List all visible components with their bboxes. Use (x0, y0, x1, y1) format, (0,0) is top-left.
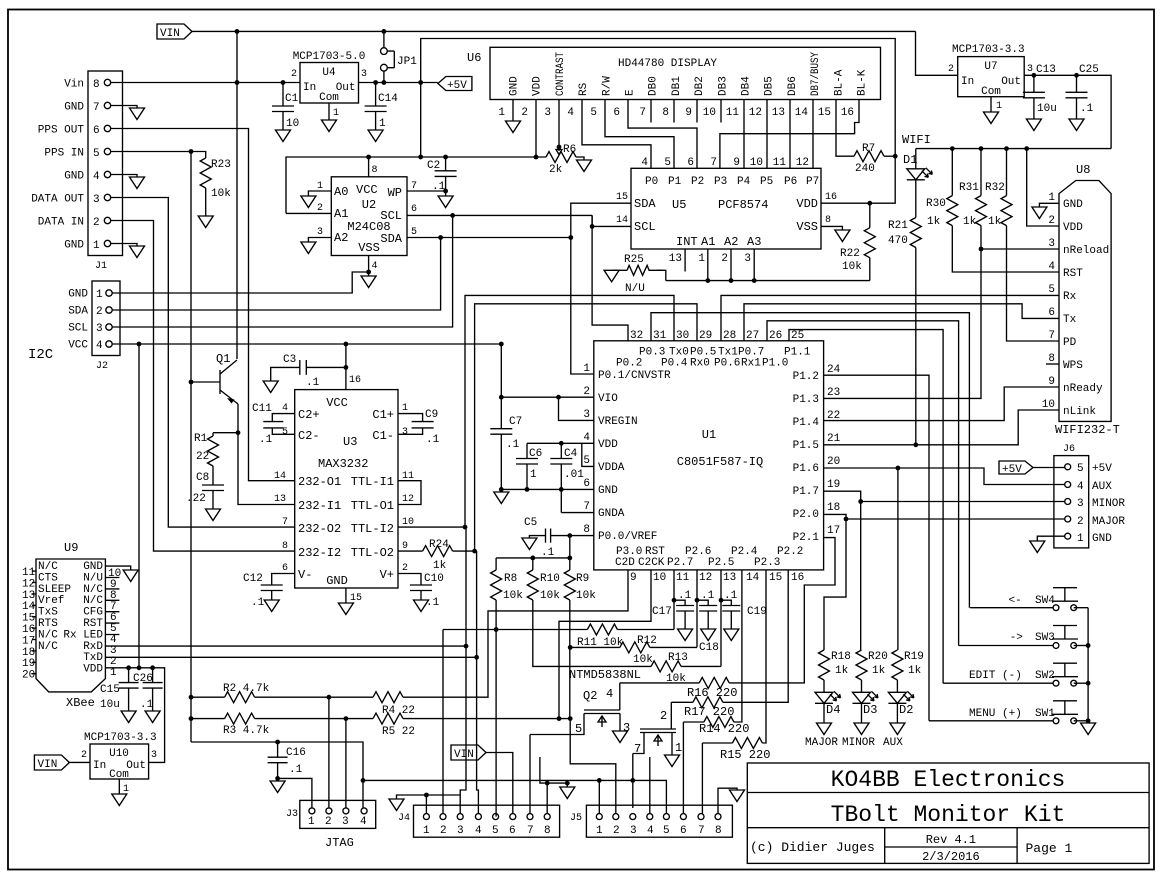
svg-text:VREGIN: VREGIN (598, 416, 638, 428)
svg-text:C6: C6 (529, 448, 542, 460)
switch SW4 (1052, 588, 1078, 611)
svg-text:4: 4 (475, 825, 482, 837)
svg-text:GND: GND (64, 102, 84, 114)
svg-text:2: 2 (948, 64, 954, 75)
resistor R11 10k (443, 629, 587, 631)
svg-text:J1: J1 (95, 261, 107, 272)
svg-text:R6: R6 (563, 144, 576, 156)
pin J1.1 gnd (104, 240, 110, 246)
wire +5V down to rail (420, 83, 422, 158)
U9 left pin numbers (22, 567, 36, 682)
svg-text:C15: C15 (100, 684, 120, 696)
svg-text:DATA IN: DATA IN (38, 217, 84, 229)
pin J2.4 VCC wire (106, 341, 112, 347)
svg-text:WIFI232-T: WIFI232-T (1055, 423, 1120, 437)
svg-text:Rx LED: Rx LED (63, 629, 103, 641)
svg-text:VDD: VDD (796, 197, 818, 211)
U2 EEPROM (286, 157, 592, 288)
svg-text:P0.0/VREF: P0.0/VREF (598, 531, 657, 543)
wire J4.3 riser from TTL (460, 646, 466, 814)
svg-text:DB3: DB3 (717, 76, 729, 96)
resistor R18 1k (819, 650, 830, 680)
svg-text:6: 6 (687, 157, 694, 169)
svg-text:J3: J3 (286, 809, 298, 820)
svg-text:R9: R9 (576, 573, 589, 585)
wire U6.10 DB3 stub (720, 100, 722, 123)
svg-text:7: 7 (93, 102, 100, 114)
svg-text:.1: .1 (259, 434, 273, 446)
wire U6.9 DB2 stub (696, 100, 698, 123)
svg-text:VCC: VCC (356, 183, 378, 197)
svg-text:1: 1 (96, 289, 103, 301)
svg-text:MCP1703-5.0: MCP1703-5.0 (293, 51, 366, 63)
svg-text:1k: 1k (988, 216, 1002, 228)
svg-text:19: 19 (22, 658, 35, 670)
wire U1.32 to SCL (592, 215, 628, 340)
capacitor C12 .1 (261, 584, 283, 586)
svg-text:28: 28 (723, 330, 736, 342)
regulator U4 MCP1703-5.0 (300, 63, 359, 104)
svg-text:1k: 1k (927, 216, 941, 228)
svg-text:5: 5 (663, 825, 670, 837)
svg-text:TBolt Monitor Kit: TBolt Monitor Kit (831, 802, 1066, 828)
svg-text:8: 8 (825, 215, 831, 226)
svg-text:RST: RST (83, 618, 103, 630)
svg-text:U8: U8 (1076, 163, 1090, 177)
potentiometer R6 2k (546, 152, 576, 163)
svg-text:MINOR: MINOR (1092, 498, 1125, 510)
svg-text:6: 6 (613, 107, 620, 119)
svg-text:C2+: C2+ (298, 408, 320, 422)
TOP RIGHT: U7 regulator (916, 31, 1112, 148)
svg-text:7: 7 (527, 825, 534, 837)
wire U6.8 DB1 stub (673, 100, 675, 123)
svg-text:1: 1 (402, 403, 408, 414)
svg-text:DB2: DB2 (694, 76, 706, 96)
svg-text:.01: .01 (564, 469, 584, 481)
svg-text:XBee: XBee (66, 696, 95, 710)
svg-text:3: 3 (744, 253, 751, 265)
svg-text:GND: GND (1063, 199, 1083, 211)
resistor R15 220 (702, 742, 732, 744)
wire P1.6 to J6 AUX (1065, 482, 1071, 488)
resistor R30 1k to U8 RST (951, 149, 953, 196)
svg-text:2: 2 (583, 386, 590, 398)
svg-text:10k: 10k (576, 590, 596, 602)
TITLEBLOCK (747, 763, 1149, 864)
wire U9 TxD to R24 net (105, 551, 476, 657)
svg-text:+5V: +5V (1092, 463, 1112, 475)
svg-text:I2C: I2C (28, 347, 53, 363)
svg-text:6: 6 (1048, 307, 1055, 319)
svg-text:EDIT (-): EDIT (-) (969, 670, 1022, 682)
svg-text:JTAG: JTAG (325, 836, 354, 850)
svg-text:12: 12 (402, 494, 414, 505)
svg-text:10: 10 (703, 107, 716, 119)
svg-text:21: 21 (827, 433, 841, 445)
power flag +5V at J6 (999, 461, 1033, 474)
wire U1.2 VIO from VCC (501, 344, 594, 397)
svg-text:P2.3: P2.3 (754, 557, 780, 569)
wire C16 gnd to J3.1 (278, 778, 312, 808)
regulator U7 MCP1703-3.3 (958, 57, 1024, 97)
svg-text:A0: A0 (334, 185, 348, 199)
svg-text:RST: RST (1063, 268, 1083, 280)
svg-text:P1.4: P1.4 (793, 417, 820, 429)
svg-text:MCP1703-3.3: MCP1703-3.3 (952, 44, 1025, 56)
connector J3 (300, 800, 376, 828)
svg-text:6: 6 (411, 204, 417, 215)
svg-text:D1: D1 (903, 153, 917, 167)
svg-text:Rx0: Rx0 (690, 358, 710, 370)
resistor R9 10k (569, 558, 571, 570)
wire U1 P2.7 pin11 to R11/C17 (673, 570, 676, 630)
svg-text:470: 470 (888, 235, 908, 247)
svg-text:10k: 10k (842, 261, 862, 273)
svg-text:12: 12 (22, 578, 35, 590)
svg-text:VIO: VIO (598, 393, 618, 405)
capacitor C17 .1 (674, 600, 685, 605)
SWITCHES (929, 588, 1096, 735)
svg-text:C9: C9 (425, 409, 438, 421)
wire R2 row to R4 (255, 696, 373, 698)
svg-text:.1: .1 (306, 377, 320, 389)
svg-text:8: 8 (1048, 353, 1055, 365)
svg-text:WPS: WPS (1063, 360, 1083, 372)
svg-text:GND: GND (598, 485, 618, 497)
svg-text:P1: P1 (668, 176, 682, 188)
svg-text:13: 13 (772, 107, 785, 119)
wire U6.7 DB0 stub (650, 100, 652, 123)
svg-text:SW3: SW3 (1035, 632, 1055, 644)
svg-text:20: 20 (22, 670, 35, 682)
svg-text:A2: A2 (334, 231, 348, 245)
svg-text:6: 6 (282, 563, 288, 574)
wire U5 SCL left (592, 215, 631, 226)
svg-text:3: 3 (342, 816, 349, 828)
svg-text:J6: J6 (1063, 444, 1075, 455)
svg-text:4: 4 (1077, 481, 1084, 493)
LED D3 MINOR (861, 680, 863, 692)
svg-text:DB6: DB6 (787, 76, 799, 96)
IC U1 C8051F587-IQ (594, 341, 824, 570)
wire J4.2 riser (442, 630, 444, 814)
pin J1.2 wire DATA IN to U3 (104, 217, 110, 223)
wire J4.8 riser (546, 783, 548, 814)
svg-text:10u: 10u (1037, 103, 1057, 115)
switch SW1 (1052, 701, 1078, 724)
svg-text:11: 11 (676, 572, 690, 584)
U8 WIFI MODULE (824, 163, 1120, 445)
svg-text:5: 5 (575, 722, 582, 736)
pin numbers left (583, 363, 590, 536)
svg-text:232-O1: 232-O1 (298, 475, 341, 489)
wire U4 Out +5V (359, 82, 438, 84)
svg-text:DB4: DB4 (741, 76, 753, 96)
connector J1 (88, 71, 123, 256)
wire gnd link to J4.3 riser (426, 794, 460, 796)
wire R15 to J5.7 (701, 743, 703, 814)
svg-text:6: 6 (583, 478, 590, 490)
wire U5 A1 A2 A3 to rail (707, 249, 709, 281)
svg-text:12: 12 (749, 107, 762, 119)
pin U3.1 C1+ (398, 414, 423, 422)
svg-text:Page 1: Page 1 (1026, 841, 1073, 856)
svg-text:R31: R31 (959, 182, 979, 194)
svg-text:GND: GND (68, 289, 88, 301)
svg-text:V+: V+ (380, 568, 394, 582)
svg-text:VDD: VDD (83, 664, 103, 676)
svg-text:GND: GND (64, 171, 84, 183)
wire U1.29 Tx0 from R24 (475, 304, 697, 551)
wire U6.16 BL-K to U5 P3 (720, 100, 859, 169)
connector J2 (92, 281, 120, 356)
capacitor C7 .1 (500, 397, 502, 429)
svg-text:14: 14 (746, 572, 760, 584)
resistor R7 240 (854, 151, 884, 162)
power flag VIN (top) (157, 24, 192, 39)
capacitor C1 10 (281, 80, 286, 85)
svg-text:10: 10 (750, 157, 763, 169)
capacitor C11 .1 (263, 421, 283, 423)
wire U9 VDD from U10 (105, 668, 164, 763)
svg-text:P0: P0 (645, 176, 658, 188)
svg-text:10: 10 (286, 118, 299, 130)
wire U1.31 to SW4 (651, 313, 969, 608)
svg-text:4: 4 (583, 432, 590, 444)
svg-text:VIN: VIN (160, 28, 180, 40)
pin J2.3 SCL wire (106, 324, 112, 330)
svg-text:3: 3 (317, 227, 323, 238)
svg-text:CTS: CTS (38, 572, 58, 584)
svg-text:15: 15 (616, 192, 628, 203)
svg-text:5: 5 (282, 427, 288, 438)
wire U8 nReady to P1.4 (824, 387, 1059, 421)
power flag VIN (J4) (451, 745, 486, 760)
svg-text:7: 7 (698, 825, 705, 837)
svg-text:SCL: SCL (380, 209, 402, 223)
svg-text:15: 15 (22, 613, 35, 625)
svg-text:3: 3 (1048, 238, 1055, 250)
svg-text:C12: C12 (243, 573, 263, 585)
svg-text:N/U: N/U (625, 283, 645, 295)
svg-text:SDA: SDA (68, 306, 88, 318)
capacitor C3 .1 (271, 367, 346, 381)
node VCC/3.3V branch (137, 342, 142, 347)
connector J6 (1054, 456, 1089, 548)
svg-text:->: -> (1010, 632, 1023, 644)
wire U3 TTL-I2 right (398, 526, 465, 528)
wire U1.3 VREGIN (559, 397, 594, 420)
svg-text:Rev 4.1: Rev 4.1 (926, 833, 976, 847)
wire P2.0 to R18 (824, 519, 846, 650)
svg-text:R32: R32 (985, 182, 1005, 194)
TOP: U4 regulator area (237, 29, 895, 213)
svg-text:C13: C13 (1036, 64, 1056, 76)
svg-text:nReload: nReload (1063, 245, 1109, 257)
svg-text:Com: Com (319, 92, 339, 104)
svg-text:V-: V- (298, 568, 312, 582)
svg-text:RTS: RTS (38, 618, 58, 630)
svg-text:8: 8 (662, 107, 669, 119)
svg-text:P3: P3 (714, 176, 727, 188)
svg-text:C19: C19 (747, 606, 767, 618)
svg-text:2: 2 (440, 825, 447, 837)
svg-text:DB1: DB1 (671, 76, 683, 96)
svg-text:1k: 1k (963, 216, 977, 228)
wire U2 SCL net (407, 214, 592, 216)
svg-text:27: 27 (746, 330, 759, 342)
wire VIN flag to rail (192, 30, 916, 32)
svg-text:3: 3 (361, 69, 367, 80)
svg-text:VCC: VCC (326, 396, 348, 410)
svg-text:2: 2 (1077, 516, 1084, 528)
resistor R32 1k to U8 PD (1006, 149, 1008, 196)
svg-text:10: 10 (653, 572, 666, 584)
svg-text:HD44780 DISPLAY: HD44780 DISPLAY (618, 58, 717, 70)
capacitor C4 .01 (560, 443, 562, 458)
svg-text:U3: U3 (343, 435, 357, 449)
svg-text:P0.6: P0.6 (714, 358, 740, 370)
svg-text:VSS: VSS (796, 220, 818, 234)
svg-text:20: 20 (827, 456, 840, 468)
svg-text:VCC: VCC (68, 340, 88, 352)
svg-text:5: 5 (590, 107, 597, 119)
pin U2 A2 gnd (308, 238, 331, 243)
svg-text:In: In (93, 760, 106, 772)
svg-text:3: 3 (630, 825, 637, 837)
svg-text:SCL: SCL (68, 323, 88, 335)
wire J3.2 riser (328, 697, 330, 808)
pin J2.2 SDA wire (106, 307, 112, 313)
svg-text:P2.5: P2.5 (708, 557, 734, 569)
svg-text:R1: R1 (194, 433, 208, 445)
svg-text:C2D: C2D (615, 557, 635, 569)
wire U1 P2.5 pin12 to R12/C18 (696, 570, 698, 648)
svg-text:P2.2: P2.2 (777, 546, 803, 558)
svg-text:P0.2: P0.2 (616, 358, 642, 370)
svg-text:U2: U2 (362, 198, 376, 212)
svg-text:6: 6 (509, 825, 516, 837)
wire U6.2 VDD to +5V rail (535, 100, 537, 158)
wire J4.4 riser from R24 net (477, 657, 479, 813)
svg-text:P6: P6 (784, 176, 797, 188)
svg-text:R23: R23 (211, 159, 231, 171)
svg-text:MAJOR: MAJOR (1092, 516, 1125, 528)
svg-text:1: 1 (596, 825, 603, 837)
svg-text:5: 5 (492, 825, 499, 837)
svg-text:R2 4.7k: R2 4.7k (223, 683, 270, 695)
svg-text:GND: GND (64, 240, 84, 252)
pin J1.3 wire DATA OUT to U3 (104, 194, 110, 200)
wire U5 SDA left (571, 203, 631, 374)
wire U6.15 BL-A to R7 (836, 100, 854, 157)
svg-text:2: 2 (402, 563, 408, 574)
resistor R4 22 (373, 692, 403, 703)
svg-text:VIN: VIN (38, 759, 58, 771)
svg-text:7: 7 (583, 501, 590, 513)
svg-text:.1: .1 (724, 590, 738, 602)
svg-text:R8: R8 (504, 573, 517, 585)
wire VREF pullup rail (496, 536, 570, 558)
svg-text:P1.0: P1.0 (762, 358, 788, 370)
BOTTOM FET / RESISTOR AREA (443, 538, 835, 814)
svg-text:3: 3 (151, 750, 157, 761)
svg-text:2: 2 (81, 750, 87, 761)
wire U9 RxD to TTL (105, 527, 466, 646)
J6 CONNECTOR (824, 375, 1126, 721)
resistor R19 1k (892, 650, 903, 680)
svg-text:9: 9 (630, 572, 637, 584)
svg-text:1: 1 (93, 240, 100, 252)
wire U2 VCC (368, 157, 370, 177)
svg-text:C11: C11 (252, 403, 272, 415)
resistor R10 10k (532, 558, 534, 570)
svg-text:Vref: Vref (38, 595, 64, 607)
svg-text:10k: 10k (540, 590, 560, 602)
svg-text:TTL-I1: TTL-I1 (351, 475, 394, 489)
svg-text:23: 23 (827, 387, 840, 399)
svg-text:1: 1 (379, 118, 386, 130)
svg-text:31: 31 (653, 330, 667, 342)
svg-text:GND: GND (1092, 533, 1112, 545)
wire Q1 emitter down to U3 232-I1 (238, 404, 295, 505)
capacitor C16 .1 (277, 742, 279, 757)
module U8 WIFI232-T (1059, 181, 1111, 422)
svg-text:1k: 1k (433, 560, 447, 572)
resistor R22 10k (869, 203, 871, 228)
resistor R3 4.7k (189, 716, 194, 721)
svg-text:1: 1 (308, 816, 315, 828)
pin numbers right (827, 364, 841, 537)
wire PPS net to J3.4 (191, 742, 363, 808)
svg-text:1: 1 (317, 181, 323, 192)
WIFI SECTION (824, 133, 1112, 447)
svg-text:7: 7 (411, 181, 417, 192)
resistor R8 10k (495, 558, 497, 570)
svg-text:U1: U1 (702, 428, 716, 442)
svg-text:U4: U4 (322, 67, 336, 79)
wire PPS IN vertical (190, 152, 192, 743)
svg-text:R22: R22 (840, 248, 860, 260)
svg-text:R7: R7 (862, 143, 875, 155)
node +5V riser (418, 80, 423, 85)
svg-text:C1+: C1+ (372, 408, 394, 422)
wire U6.3 CONTRAST to R6 wiper (558, 100, 560, 148)
ground U5 VSS (821, 226, 842, 230)
wire U2 VSS gnd (368, 256, 370, 277)
svg-text:232-I2: 232-I2 (298, 546, 341, 560)
ground U6.1 (512, 100, 514, 122)
svg-text:R5 22: R5 22 (382, 726, 415, 738)
svg-text:.1: .1 (678, 590, 692, 602)
resistor R1 22 (213, 433, 238, 436)
ground switch bus (1087, 608, 1089, 723)
svg-text:24: 24 (827, 364, 841, 376)
svg-text:N/C: N/C (38, 561, 58, 573)
ground U8 GND (1039, 203, 1059, 207)
svg-text:GND: GND (509, 76, 521, 96)
svg-text:J4: J4 (398, 813, 410, 824)
svg-text:SLEEP: SLEEP (38, 584, 71, 596)
STATUS LEDS (805, 468, 924, 749)
svg-text:3: 3 (583, 409, 590, 421)
wire J5.3 riser (632, 754, 634, 809)
svg-text:18: 18 (827, 502, 840, 514)
svg-text:P1.6: P1.6 (793, 463, 819, 475)
wire P1.6 to R19 (897, 468, 899, 650)
svg-text:.22: .22 (186, 493, 206, 505)
